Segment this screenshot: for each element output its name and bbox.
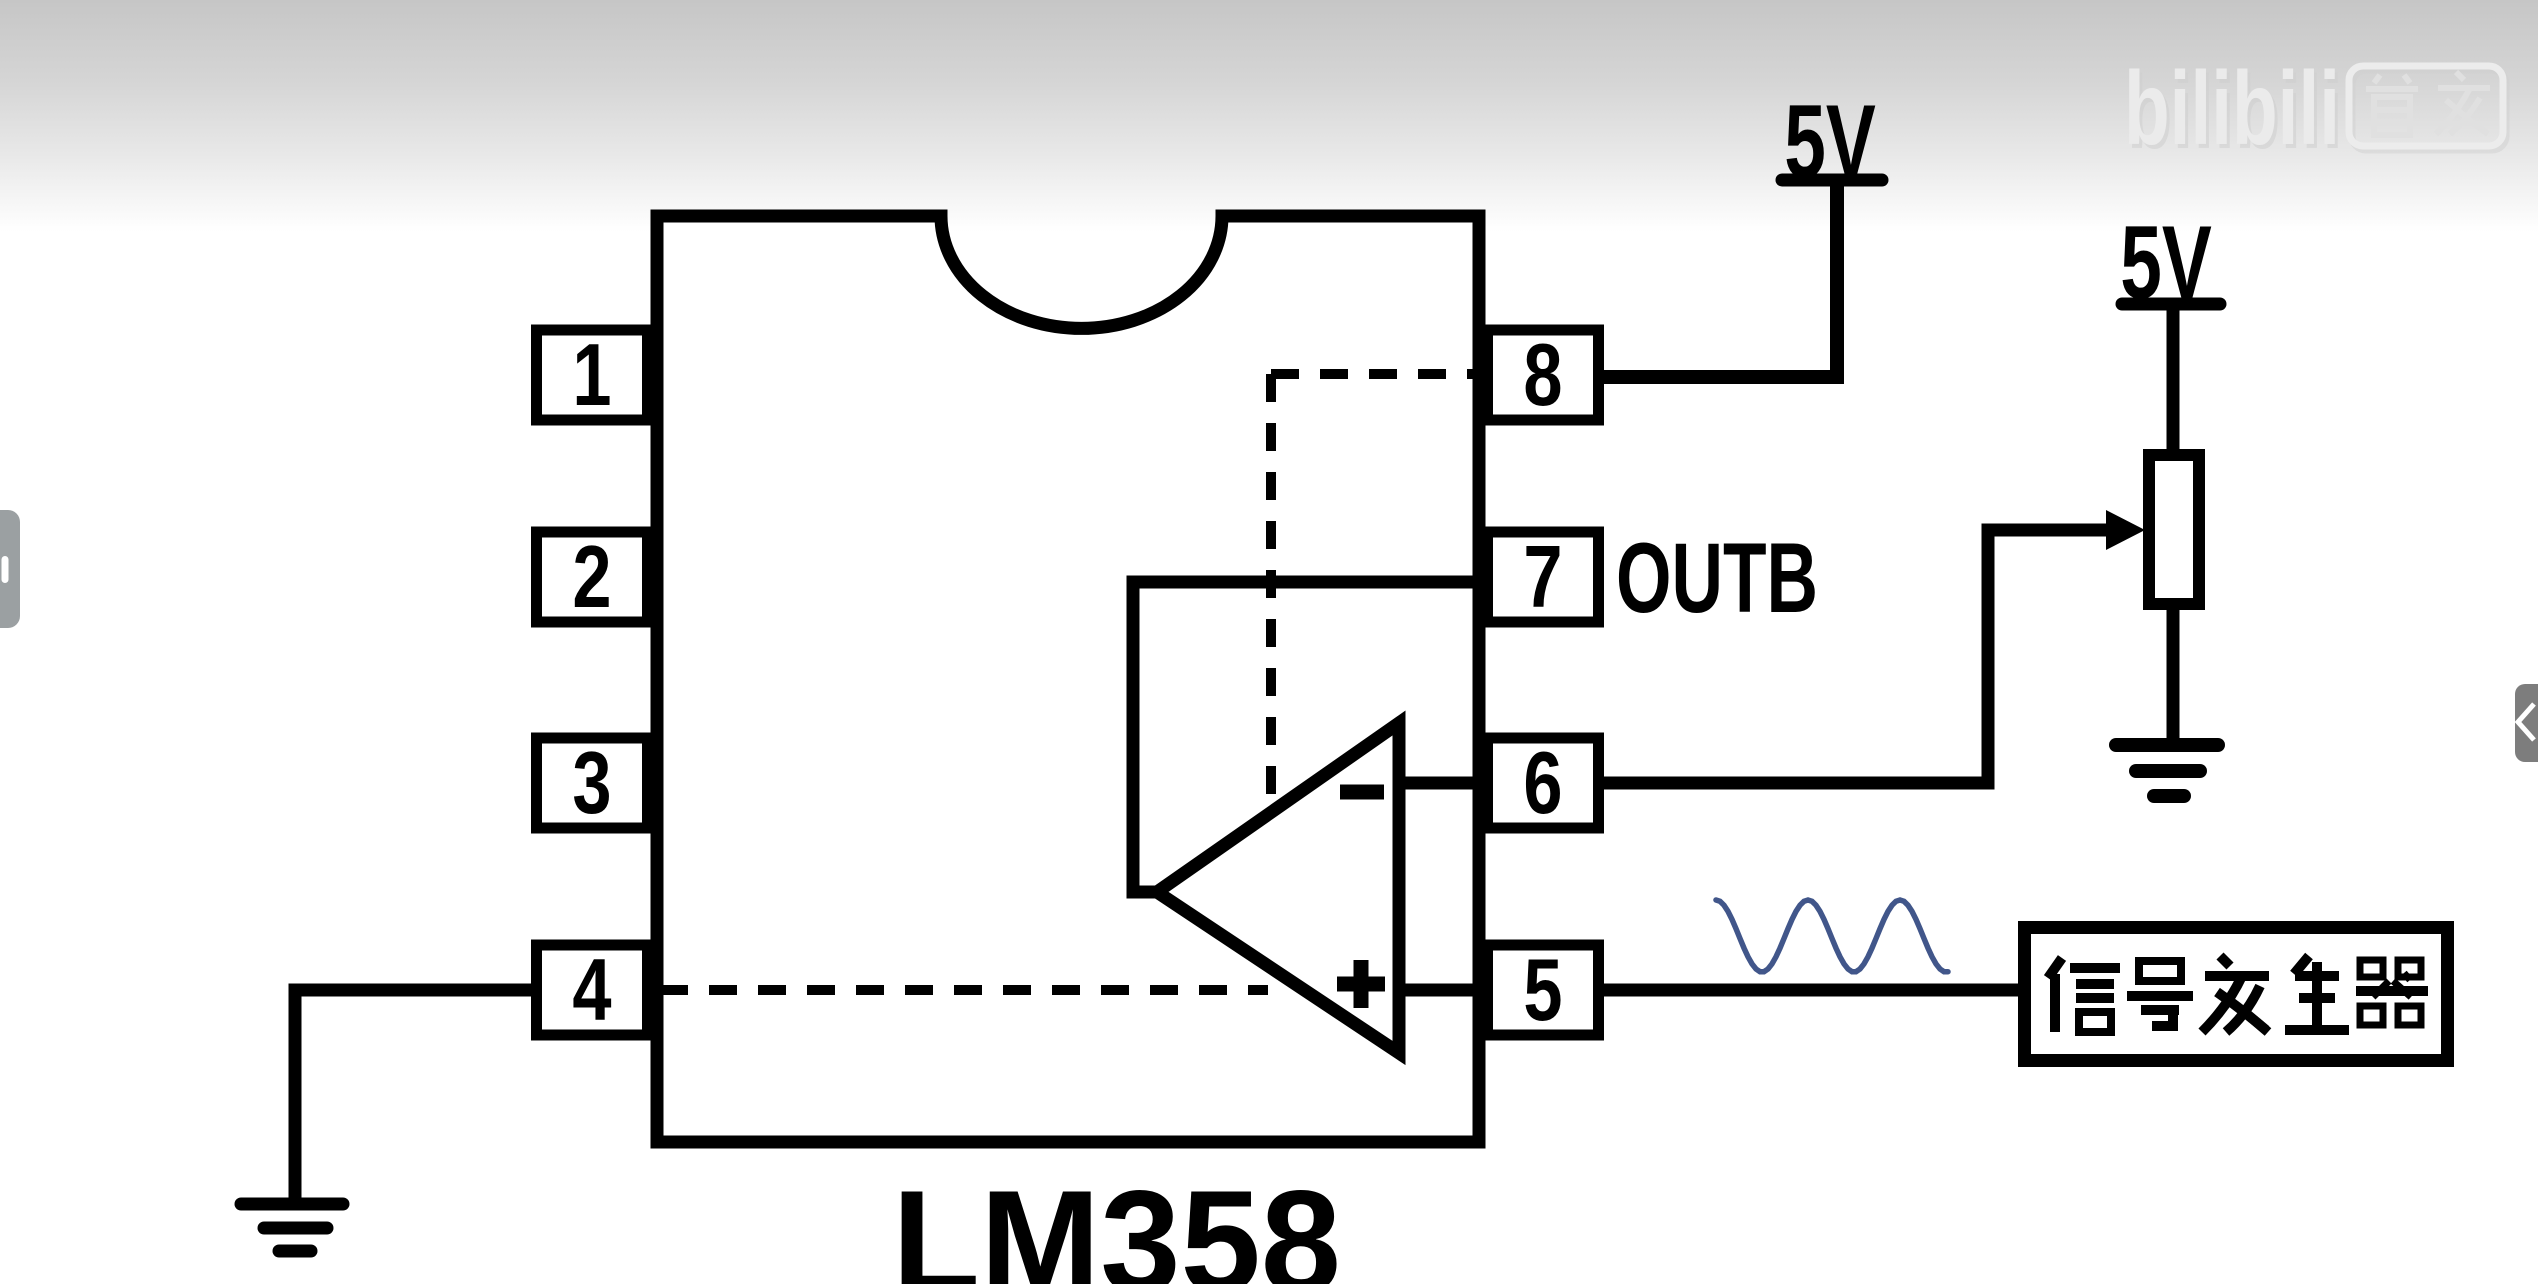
wire potentiometer bottom to ground — [2167, 604, 2180, 745]
ground left — [241, 1204, 343, 1251]
power 5V supply 1 bar — [1782, 174, 1882, 187]
wire non-inverting input to pin 5 — [1399, 984, 1482, 997]
svg-text:8: 8 — [1523, 325, 1562, 423]
svg-text:5V: 5V — [2120, 205, 2212, 321]
pin 3 box — [537, 733, 648, 831]
svg-text:5: 5 — [1523, 940, 1562, 1038]
pin 1 box — [537, 325, 648, 423]
wire inverting input to pin 6 — [1399, 777, 1482, 790]
dashed net vertical — [1266, 374, 1276, 800]
wire pin5 to signal generator — [1604, 984, 2020, 997]
svg-text:2: 2 — [572, 527, 611, 625]
pin 5 box — [1488, 940, 1599, 1038]
top gradient band — [0, 0, 2538, 232]
svg-text:7: 7 — [1523, 527, 1562, 625]
wire 5V to potentiometer top — [2167, 304, 2180, 450]
svg-text:3: 3 — [572, 733, 611, 831]
char hao — [2139, 961, 2181, 981]
5V label 2 — [2120, 205, 2212, 321]
dashed net pin4 to op-amp V- — [660, 985, 1268, 995]
wiper arrowhead — [2106, 510, 2145, 550]
char qi — [2360, 960, 2383, 977]
power 5V supply 2 bar — [2122, 298, 2220, 311]
char xin — [2048, 958, 2062, 978]
sine wave symbol — [1716, 900, 1948, 972]
LM358 label — [892, 1160, 1341, 1284]
svg-text:bilibili: bilibili — [2124, 51, 2340, 167]
op-amp U1B output feedback wire to pin 7 — [1133, 582, 1482, 892]
op-amp U1B triangle — [1157, 723, 1399, 1053]
minus symbol — [1340, 785, 1384, 800]
left edge UI tab — [0, 510, 20, 628]
svg-text:6: 6 — [1523, 733, 1562, 831]
pin 6 box — [1488, 733, 1599, 831]
pin 7 box — [1488, 527, 1599, 625]
wire pin4 to ground — [295, 990, 531, 1200]
potentiometer RV1 body — [2149, 455, 2199, 604]
IC body U1 LM358 — [657, 216, 1479, 1142]
wire pin6 to potentiometer wiper — [1604, 530, 2106, 783]
watermark bilibili — [2124, 51, 2506, 171]
svg-text:1: 1 — [572, 325, 611, 423]
wire pin8 to 5V — [1604, 182, 1837, 377]
OUTB label — [1616, 522, 1818, 633]
dashed net pin8 to op-amp V+ — [1271, 369, 1482, 379]
pin 8 box — [1488, 325, 1599, 423]
char fa — [2220, 956, 2230, 966]
signal generator label (hand-drawn CJK) 信号发生器 — [2048, 956, 2428, 1032]
svg-text:4: 4 — [572, 940, 611, 1038]
char sheng — [2294, 956, 2309, 974]
svg-text:5V: 5V — [1784, 84, 1876, 200]
svg-text:LM358: LM358 — [892, 1160, 1341, 1284]
signal generator box — [2025, 928, 2448, 1061]
svg-text:OUTB: OUTB — [1616, 522, 1818, 633]
ground right — [2116, 745, 2218, 796]
plus symbol — [1337, 960, 1385, 1008]
5V label 1 — [1784, 84, 1876, 200]
pin 2 box — [537, 527, 648, 625]
right edge UI tab — [2515, 684, 2538, 762]
pin 4 box — [537, 940, 648, 1038]
